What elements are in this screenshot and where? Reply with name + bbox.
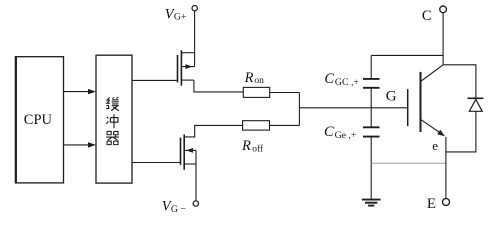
wire C down to collector corner — [442, 13, 444, 65]
svg-text:C: C — [324, 71, 334, 87]
label C_GC,+ — [324, 71, 359, 88]
terminal V_G+ — [192, 6, 197, 11]
svg-text:E: E — [427, 196, 436, 212]
resistor R_on — [243, 87, 269, 97]
wire R_off out — [270, 124, 300, 126]
svg-text:on: on — [254, 76, 264, 86]
svg-text:C: C — [324, 124, 334, 140]
wire R_on out — [270, 92, 300, 94]
capacitor C_Ge+ — [363, 127, 380, 136]
label V_G+ — [165, 6, 187, 22]
svg-text:CPU: CPU — [24, 112, 53, 128]
CPU box — [16, 56, 64, 183]
wire emitter down to E — [445, 137, 447, 199]
svg-text:off: off — [252, 143, 264, 154]
transistor Q2 (NMOS, lower driver) — [181, 134, 197, 200]
buffer label 器 — [106, 131, 119, 144]
svg-text:C: C — [422, 8, 432, 24]
arrow CPU to buffer (lower) — [64, 142, 96, 147]
wire aux node to emitter (thin) — [371, 162, 446, 164]
svg-text:G −: G − — [171, 204, 187, 215]
buffer box (缓冲器) — [96, 55, 132, 183]
terminal E — [443, 199, 450, 206]
svg-text:R: R — [241, 138, 251, 154]
wire R_off left to Q2 drain corner — [184, 125, 242, 136]
IGBT U1 — [408, 65, 445, 137]
label C_Ge,+ — [324, 124, 357, 141]
wire cap bottom to ground — [370, 137, 372, 200]
svg-text:G+: G+ — [174, 12, 187, 23]
wire cap top to collector node — [371, 54, 443, 56]
capacitor C_GC+ — [363, 55, 380, 87]
svg-text:GC ,+: GC ,+ — [335, 77, 360, 88]
terminal V_G- — [193, 201, 198, 206]
svg-text:e: e — [432, 138, 438, 153]
label R_on — [244, 70, 265, 86]
resistor R_off — [243, 121, 270, 130]
wire diode bottom to emitter node — [446, 111, 476, 152]
buffer label 冲 — [106, 114, 118, 128]
arrow CPU to buffer (upper) — [64, 89, 96, 94]
diode D1 — [468, 98, 484, 111]
label R_off — [241, 138, 264, 154]
wire collector corner to diode top — [443, 65, 476, 99]
wire gate node to IGBT gate — [299, 107, 407, 109]
svg-text:G: G — [386, 89, 397, 105]
wire cap middle vertical — [370, 88, 372, 128]
wire buffer to Q1 gate — [132, 79, 178, 81]
wire buffer to Q2 gate — [132, 162, 181, 164]
svg-text:R: R — [244, 70, 254, 86]
terminal C — [440, 6, 447, 13]
label V_G- — [162, 198, 187, 214]
ground — [362, 200, 381, 206]
junction vertical — [298, 93, 300, 126]
transistor Q1 (PMOS, upper driver) — [178, 11, 244, 92]
svg-text:Ge ,+: Ge ,+ — [335, 130, 357, 141]
buffer label 缓 — [106, 97, 119, 111]
